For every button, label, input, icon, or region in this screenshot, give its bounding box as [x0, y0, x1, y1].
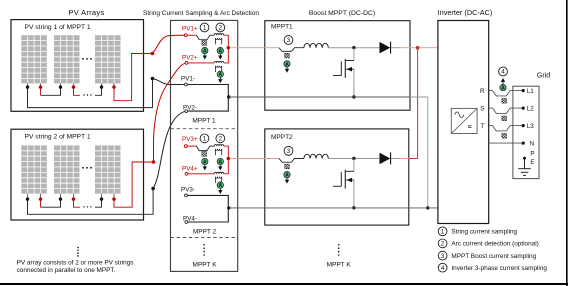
svg-text:MPPT K: MPPT K [327, 261, 352, 268]
panel lead stubs string 1 [28, 83, 115, 86]
PV panel A2 [54, 35, 80, 83]
svg-text:MPPT K: MPPT K [193, 261, 218, 268]
terminal dot A2- [59, 85, 62, 88]
wire PV1+ to shunt [187, 34, 196, 36]
wire PV2+ to CT [188, 62, 214, 64]
string sampling & arc detection box [171, 20, 238, 271]
legend item 4 [438, 263, 447, 272]
svg-text:PV1+: PV1+ [182, 25, 198, 32]
svg-text:String Current Sampling & Arc: String Current Sampling & Arc Detection [143, 10, 259, 17]
svg-text:PV1-: PV1- [181, 76, 195, 83]
boost MPPT2 box [265, 129, 409, 225]
protective earth node [523, 157, 526, 160]
svg-text:PV string 1 of MPPT 1: PV string 1 of MPPT 1 [25, 24, 91, 31]
wire DC- rail MPPT1 [229, 96, 410, 98]
terminal PV2- [185, 110, 188, 113]
wire string2 positive output [114, 162, 154, 207]
svg-text:PV Arrays: PV Arrays [68, 8, 104, 17]
wire curve string2- to PV2- [153, 111, 185, 188]
PV panel B1 [21, 145, 47, 193]
wire curve string1- to PV1- [153, 79, 185, 85]
node string1 + [151, 52, 155, 56]
shunt dip sensor 1 [196, 35, 214, 40]
PV string 1 box [11, 20, 144, 112]
inverter output row R with sensor [489, 89, 525, 103]
frame bottom border [0, 283, 568, 285]
ellipsis between panels B2 and B3 [82, 167, 92, 169]
inverter output row T with sensor [489, 124, 525, 138]
green sensor A boost [284, 61, 290, 68]
grid box [513, 86, 539, 178]
wire CT to node [224, 35, 229, 46]
inverter DC-AC symbol [451, 108, 477, 133]
wire link B1+ to B2- [40, 199, 42, 207]
svg-text:L1: L1 [527, 88, 535, 95]
wire CT2 to node [224, 49, 229, 63]
svg-text:2: 2 [219, 25, 223, 32]
svg-text:connected in parallel to one M: connected in parallel to one MPPT. [17, 267, 116, 274]
svg-text:MPPT 2: MPPT 2 [193, 228, 217, 235]
svg-text:2: 2 [441, 241, 445, 248]
ellipsis boost column [338, 244, 340, 256]
checker sensor box [202, 41, 207, 46]
wire PV2- to node [188, 99, 229, 112]
inverter output row S with sensor [489, 107, 525, 121]
diode D [380, 42, 390, 53]
MOSFET switch [353, 48, 355, 61]
boost MPPT2 internals (shifted copy) [230, 146, 400, 209]
inductor L [304, 43, 328, 47]
svg-text:1: 1 [203, 25, 207, 32]
green sensor A under shunt 1 [202, 47, 208, 54]
svg-text:N: N [530, 141, 535, 148]
PV panel B3 [95, 145, 121, 193]
terminal dot A3- [100, 85, 103, 88]
dashed divider 1 [171, 128, 238, 130]
terminal dot B2- [59, 197, 62, 200]
svg-text:1: 1 [441, 229, 445, 236]
wire string1 positive output [114, 54, 153, 101]
ellipsis below string boxes [77, 247, 79, 257]
svg-text:PV2-: PV2- [183, 105, 197, 112]
inverter box [438, 21, 489, 224]
node string2 - [151, 187, 155, 191]
node DC- rail junction [426, 206, 429, 209]
svg-text:4: 4 [501, 69, 505, 76]
svg-text:MPPT2: MPPT2 [271, 134, 293, 141]
svg-text:String current sampling: String current sampling [451, 229, 517, 236]
svg-text:PV array consists of 2 or more: PV array consists of 2 or more PV string… [17, 260, 134, 267]
wire string2 negative output [28, 189, 154, 215]
svg-text:PV string 2 of MPPT 1: PV string 2 of MPPT 1 [25, 134, 91, 141]
wire curve string1+ to PV1+ [153, 35, 185, 53]
green sensor A under CT 2 [217, 71, 223, 78]
node MPPT1 - [227, 95, 230, 98]
node string1 - [151, 77, 155, 81]
svg-text:PV2+: PV2+ [182, 55, 198, 62]
inverter output row N [489, 142, 522, 144]
terminal dot B3- [100, 197, 103, 200]
dashed divider 2 [171, 237, 238, 239]
legend item 1 [438, 227, 447, 236]
terminal dot B1- [26, 197, 29, 200]
wire node to diode [355, 47, 379, 49]
svg-text:T: T [481, 123, 485, 130]
svg-text:PV3+: PV3+ [182, 136, 198, 143]
legend item 2 [438, 239, 447, 248]
MPPT2 sampling group geometry (same as MPPT1 shifted) [184, 134, 230, 223]
svg-text:3: 3 [441, 253, 445, 260]
green sensor A under CT 1 [217, 47, 223, 54]
wire link B2+ to B3- with ellipsis [74, 199, 81, 207]
boost MPPT1 box [265, 21, 410, 111]
wire curve string2+ to PV2+ [154, 63, 186, 162]
svg-text:Boost MPPT (DC-DC): Boost MPPT (DC-DC) [309, 10, 375, 17]
legend item 3 [438, 251, 447, 260]
svg-text:PV3-: PV3- [181, 187, 195, 194]
terminal dot B1+ [39, 197, 42, 200]
wire DC- rail MPPT2 to inverter [229, 207, 438, 209]
svg-text:PV4+: PV4+ [182, 165, 198, 172]
arc CT on PV1+ [214, 34, 223, 45]
wire DC+ bus MPPT1 output [400, 47, 438, 49]
wire MPPT2 output to bus [400, 158, 409, 160]
svg-text:MPPT Boost current sampling: MPPT Boost current sampling [451, 253, 536, 260]
terminal PV1+ [184, 34, 187, 37]
terminal dot A2+ [72, 85, 75, 88]
circled 4 [499, 67, 508, 76]
ellipsis between panels A2 and A3 [82, 58, 92, 60]
wire DC+ bus vertical [417, 48, 419, 159]
PV panel A3 [95, 35, 121, 83]
node string2 + [152, 160, 156, 164]
terminal dot A1- [26, 85, 29, 88]
wire link A2+ to A3- with ellipsis [74, 87, 81, 95]
wire link A1+ to A2- [40, 87, 42, 95]
up arrow to circled 4 [501, 78, 505, 82]
terminal PV2+ [185, 62, 188, 65]
svg-text:R: R [480, 88, 485, 95]
svg-text:Inverter 3-phase current sampl: Inverter 3-phase current sampling [451, 265, 547, 272]
PV string 2 box [11, 129, 144, 220]
PV panel A1 [21, 35, 47, 83]
node boost switch [352, 46, 355, 49]
PV panel B2 [54, 145, 80, 193]
shunt dip sensor boost [279, 48, 304, 52]
ground symbol [524, 160, 526, 169]
node DC+ bus [416, 46, 420, 50]
svg-text:3: 3 [287, 37, 291, 44]
wire PV1- to node [187, 85, 228, 96]
node boost ground [352, 95, 355, 98]
terminal dot A3+ [112, 85, 115, 88]
wire diode output [391, 47, 400, 49]
arc CT on PV2+ [214, 61, 223, 72]
svg-text:L2: L2 [527, 106, 535, 113]
ellipsis sampling column [203, 244, 205, 256]
svg-text:MPPT1: MPPT1 [271, 24, 293, 31]
svg-text:PV4-: PV4- [183, 215, 197, 222]
wire L to node [328, 47, 352, 49]
wire DC+ input [230, 47, 279, 49]
boost converter internals group [230, 36, 400, 99]
terminal dot B3+ [112, 197, 115, 200]
terminal PV1- [185, 83, 188, 86]
circled 2 [216, 23, 225, 32]
svg-text:L3: L3 [527, 123, 535, 130]
svg-text:P: P [530, 151, 534, 158]
frame right border [566, 0, 568, 286]
svg-text:Grid: Grid [537, 73, 550, 80]
svg-text:S: S [480, 105, 484, 112]
panel lead stubs string 2 [28, 194, 115, 198]
svg-text:4: 4 [441, 265, 445, 272]
terminal dot B2+ [72, 197, 75, 200]
MPPT1 sampling group geometry [184, 23, 230, 112]
svg-text:E: E [530, 159, 534, 166]
wire string1 negative output [28, 79, 153, 108]
svg-text:Arc current detection (optiona: Arc current detection (optional) [451, 241, 538, 248]
svg-text:Inverter (DC-AC): Inverter (DC-AC) [438, 8, 493, 17]
node MPPT1 + [227, 46, 230, 49]
circled 3 [284, 36, 293, 45]
green sensor A inverter [500, 84, 506, 91]
circled 1 [200, 23, 209, 32]
terminal dot A1+ [39, 85, 42, 88]
checker sensor box boost [285, 53, 290, 58]
svg-text:MPPT 1: MPPT 1 [192, 118, 216, 125]
